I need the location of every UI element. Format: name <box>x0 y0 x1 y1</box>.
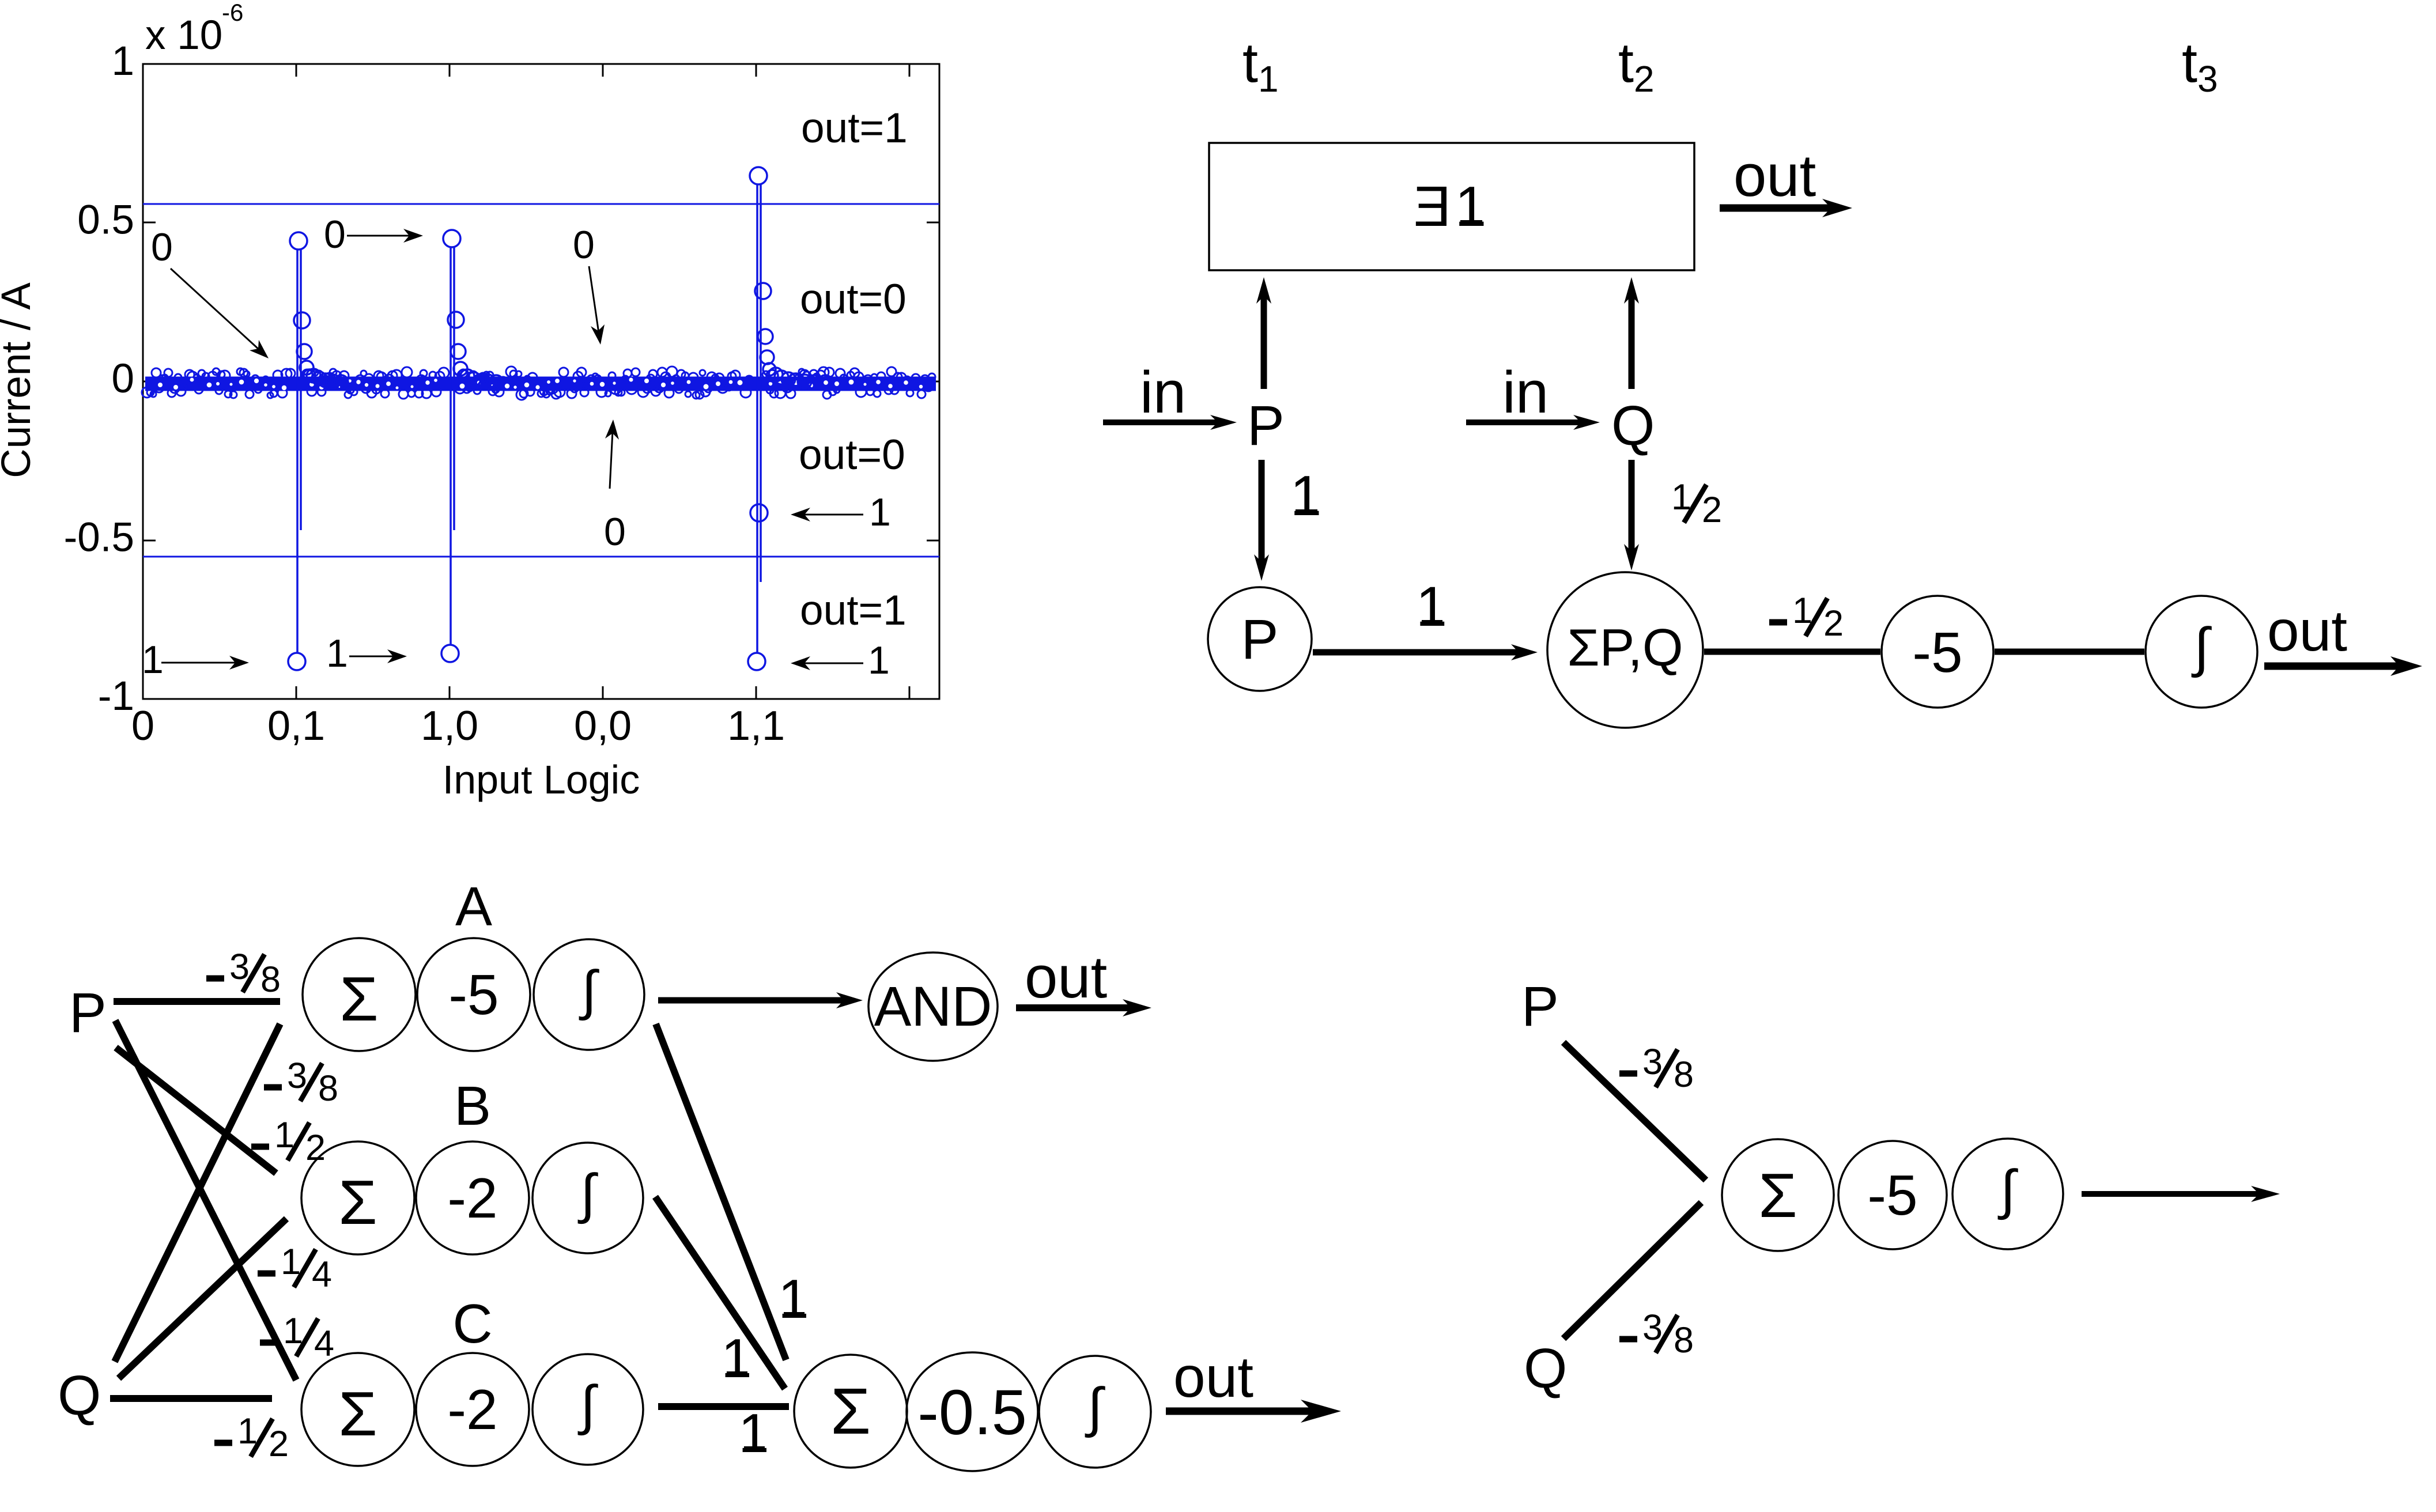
up arrow P to box <box>1261 293 1267 389</box>
svg-text:2: 2 <box>1823 603 1844 644</box>
svg-text:0,1: 0,1 <box>267 703 325 749</box>
svg-text:0: 0 <box>604 510 626 554</box>
svg-text:∫: ∫ <box>1997 1159 2018 1220</box>
svg-text:8: 8 <box>260 959 281 1000</box>
svg-text:P: P <box>69 981 107 1044</box>
integrator circle right <box>1952 1139 2063 1249</box>
svg-text:-0.5: -0.5 <box>64 515 134 561</box>
arrow integratorA to AND <box>658 997 847 1004</box>
svg-text:-2: -2 <box>447 1166 497 1230</box>
lower threshold line <box>143 556 939 558</box>
bottom integrator circle <box>1039 1356 1151 1468</box>
data spike at input 0,1 <box>288 232 348 670</box>
svg-text:1,1: 1,1 <box>727 703 785 749</box>
svg-text:P: P <box>1241 608 1279 671</box>
svg-text:-1: -1 <box>98 674 134 719</box>
svg-text:Q: Q <box>1611 394 1655 457</box>
svg-text:in: in <box>1502 359 1549 425</box>
down arrow P weight 1 <box>1259 460 1265 565</box>
svg-text:-0.5: -0.5 <box>917 1377 1027 1448</box>
svg-text:Σ: Σ <box>338 1379 377 1449</box>
gain circle -5 <box>417 938 530 1051</box>
svg-text:∫: ∫ <box>577 1163 598 1224</box>
svg-text:1: 1 <box>738 1403 769 1464</box>
weight line P to Sigma <box>1563 1042 1706 1180</box>
svg-text:1: 1 <box>868 638 890 682</box>
svg-text:out=0: out=0 <box>800 276 907 323</box>
out arrow after AND <box>1016 1004 1134 1011</box>
weight line P to SigmaB <box>116 1048 276 1173</box>
svg-text:0: 0 <box>151 225 173 269</box>
svg-text:∫: ∫ <box>579 960 599 1021</box>
weight line Q to SigmaC <box>110 1395 272 1402</box>
svg-text:out=1: out=1 <box>800 587 907 634</box>
svg-text:0,0: 0,0 <box>574 703 632 749</box>
down arrow Q weight 1/2 <box>1629 460 1635 554</box>
data spike at input 1,1 <box>748 167 832 670</box>
weight line P to SigmaC <box>115 1020 296 1380</box>
weight line P to SigmaA <box>114 998 280 1005</box>
gain circle -5 right <box>1838 1141 1947 1249</box>
arrow P to sum, weight 1 <box>1313 649 1521 656</box>
svg-text:8: 8 <box>318 1068 338 1109</box>
exists-one box <box>1209 143 1694 270</box>
weight line Q to Sigma <box>1563 1203 1701 1339</box>
wire sum to -5, weight -1/2 <box>1704 649 1880 655</box>
svg-text:out=0: out=0 <box>799 432 905 478</box>
svg-text:1: 1 <box>326 632 348 675</box>
weight label -1/2 <box>1769 619 1787 626</box>
svg-text:out: out <box>1733 142 1816 209</box>
svg-text:1: 1 <box>869 490 891 534</box>
svg-text:Q: Q <box>1524 1337 1567 1400</box>
in arrow to Q <box>1466 419 1584 425</box>
svg-text:8: 8 <box>1674 1320 1694 1360</box>
svg-text:out: out <box>1025 944 1107 1010</box>
weight line Q to SigmaA <box>115 1024 280 1362</box>
data spike at input 1,0 <box>441 230 503 662</box>
weight label -1/2 P-B <box>251 1144 269 1150</box>
noisy baseline data band <box>142 366 936 400</box>
svg-text:2: 2 <box>269 1424 289 1464</box>
svg-text:0: 0 <box>131 703 154 749</box>
svg-text:4: 4 <box>314 1324 334 1364</box>
in arrow to P <box>1103 419 1221 425</box>
svg-text:Σ: Σ <box>339 964 378 1034</box>
svg-text:∫: ∫ <box>2191 617 2212 678</box>
svg-text:out: out <box>1173 1345 1253 1409</box>
out arrow top right <box>1720 205 1834 212</box>
svg-text:0: 0 <box>324 213 346 256</box>
sum circle <box>303 938 416 1051</box>
weight label -1/2 Q-C <box>214 1440 232 1446</box>
integrator circle <box>534 939 644 1050</box>
svg-text:1: 1 <box>1290 464 1322 527</box>
out arrow bottom <box>1166 1408 1317 1415</box>
weight line Q to SigmaB <box>119 1219 286 1378</box>
annotation 0 with up arrow at input 0,0 <box>610 431 613 489</box>
band speckle texture <box>158 378 923 391</box>
neuron circle P <box>1208 587 1312 691</box>
weight label -1/4 Q-B <box>258 1271 275 1277</box>
svg-text:1: 1 <box>778 1268 809 1330</box>
svg-text:1: 1 <box>142 638 164 682</box>
svg-text:1: 1 <box>721 1328 751 1389</box>
svg-text:2: 2 <box>1702 490 1722 530</box>
svg-text:x 10: x 10 <box>145 13 222 58</box>
up arrow Q to box <box>1629 293 1635 389</box>
weight label -3/8 lower <box>1619 1336 1637 1343</box>
svg-text:P: P <box>1247 394 1285 457</box>
svg-text:out: out <box>2267 599 2347 663</box>
svg-text:Σ: Σ <box>830 1375 871 1447</box>
upper threshold line <box>143 203 939 205</box>
svg-text:1: 1 <box>1416 575 1447 638</box>
svg-text:P: P <box>1521 975 1559 1038</box>
svg-text:AND: AND <box>874 975 992 1038</box>
sum circle <box>301 1141 414 1254</box>
wire -5 to integrator <box>1995 649 2144 655</box>
weight label -1/4 P-C <box>260 1340 278 1346</box>
svg-text:-5: -5 <box>1912 621 1962 684</box>
bottom sum circle <box>794 1355 907 1468</box>
integrator circle <box>532 1354 643 1465</box>
svg-text:1: 1 <box>112 39 135 84</box>
AND gate ellipse <box>868 952 998 1061</box>
svg-text:out=1: out=1 <box>801 105 908 152</box>
svg-text:0.5: 0.5 <box>77 198 134 243</box>
svg-text:-5: -5 <box>448 963 498 1026</box>
wire integratorC to bottom sum, weight 1 <box>658 1403 789 1410</box>
svg-text:Σ: Σ <box>338 1167 377 1238</box>
svg-text:∫: ∫ <box>1085 1377 1105 1438</box>
integrator circle <box>532 1143 643 1253</box>
svg-text:0: 0 <box>112 356 135 402</box>
svg-text:Current / A: Current / A <box>0 282 39 478</box>
svg-text:Input Logic: Input Logic <box>443 757 640 802</box>
gain circle -0.5 <box>907 1352 1038 1471</box>
svg-text:Q: Q <box>58 1364 101 1427</box>
marker circle at value -0.42 on spike 1,1 <box>750 504 768 521</box>
gain circle -2 <box>416 1141 529 1254</box>
integrator circle <box>2146 596 2257 708</box>
sum circle <box>301 1353 414 1466</box>
sum circle right <box>1722 1139 1834 1251</box>
plot axes frame <box>143 64 939 699</box>
svg-text:A: A <box>455 876 492 938</box>
svg-text:8: 8 <box>1674 1054 1694 1095</box>
wire integratorA to bottom sum, weight 1 <box>656 1024 786 1360</box>
svg-text:-6: -6 <box>222 0 243 26</box>
svg-text:-2: -2 <box>447 1378 497 1441</box>
svg-text:C: C <box>452 1293 492 1355</box>
svg-text:B: B <box>454 1075 491 1137</box>
weight label -3/8 Q-A <box>264 1084 282 1091</box>
svg-text:∫: ∫ <box>577 1375 598 1436</box>
sum neuron SigmaP,Q <box>1547 572 1703 728</box>
svg-text:-5: -5 <box>1867 1163 1917 1227</box>
exists-one label <box>1414 175 1451 238</box>
weight label -3/8 P-A <box>206 976 224 982</box>
output arrow right <box>2082 1191 2263 1197</box>
svg-text:1,0: 1,0 <box>421 703 478 749</box>
svg-text:4: 4 <box>312 1254 332 1295</box>
wire integratorB to bottom sum, weight 1 <box>655 1197 785 1389</box>
gain circle -2 <box>416 1353 529 1466</box>
svg-text:Σ: Σ <box>1758 1161 1797 1231</box>
svg-text:1: 1 <box>1455 175 1487 238</box>
weight label -3/8 upper <box>1619 1071 1637 1077</box>
svg-text:ΣP,Q: ΣP,Q <box>1567 619 1683 677</box>
gain circle -5 <box>1882 596 1993 708</box>
svg-text:in: in <box>1140 359 1186 425</box>
svg-text:0: 0 <box>573 223 595 267</box>
plot tick marks <box>143 64 939 699</box>
out arrow bottom right <box>2264 663 2403 670</box>
svg-text:E: E <box>1414 175 1451 238</box>
